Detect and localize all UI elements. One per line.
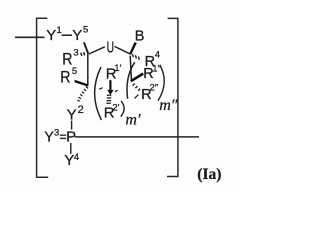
svg-text:1′: 1′ (114, 63, 121, 74)
svg-text:P: P (66, 129, 76, 146)
svg-text:5: 5 (72, 66, 77, 77)
svg-text:Y: Y (67, 106, 77, 123)
svg-text:R: R (60, 68, 70, 86)
svg-text:4: 4 (74, 152, 79, 163)
svg-text:Y: Y (64, 152, 74, 169)
svg-text:1: 1 (57, 25, 62, 36)
svg-text:m″: m″ (159, 97, 178, 114)
svg-text:Y: Y (44, 130, 54, 146)
svg-text:2′: 2′ (112, 103, 119, 114)
svg-text:m′: m′ (125, 111, 141, 128)
svg-text:Y: Y (46, 27, 56, 44)
svg-text:4: 4 (155, 49, 160, 60)
svg-text:2″: 2″ (150, 83, 159, 94)
svg-text:B: B (135, 29, 145, 45)
svg-text:Y: Y (72, 27, 82, 44)
svg-text:5: 5 (83, 25, 88, 36)
svg-text:3: 3 (54, 128, 59, 139)
svg-text:R: R (145, 54, 155, 70)
svg-text:(Ia): (Ia) (197, 166, 221, 183)
svg-text:3: 3 (73, 47, 78, 58)
svg-text:U: U (107, 39, 115, 56)
svg-text:2: 2 (78, 104, 84, 116)
